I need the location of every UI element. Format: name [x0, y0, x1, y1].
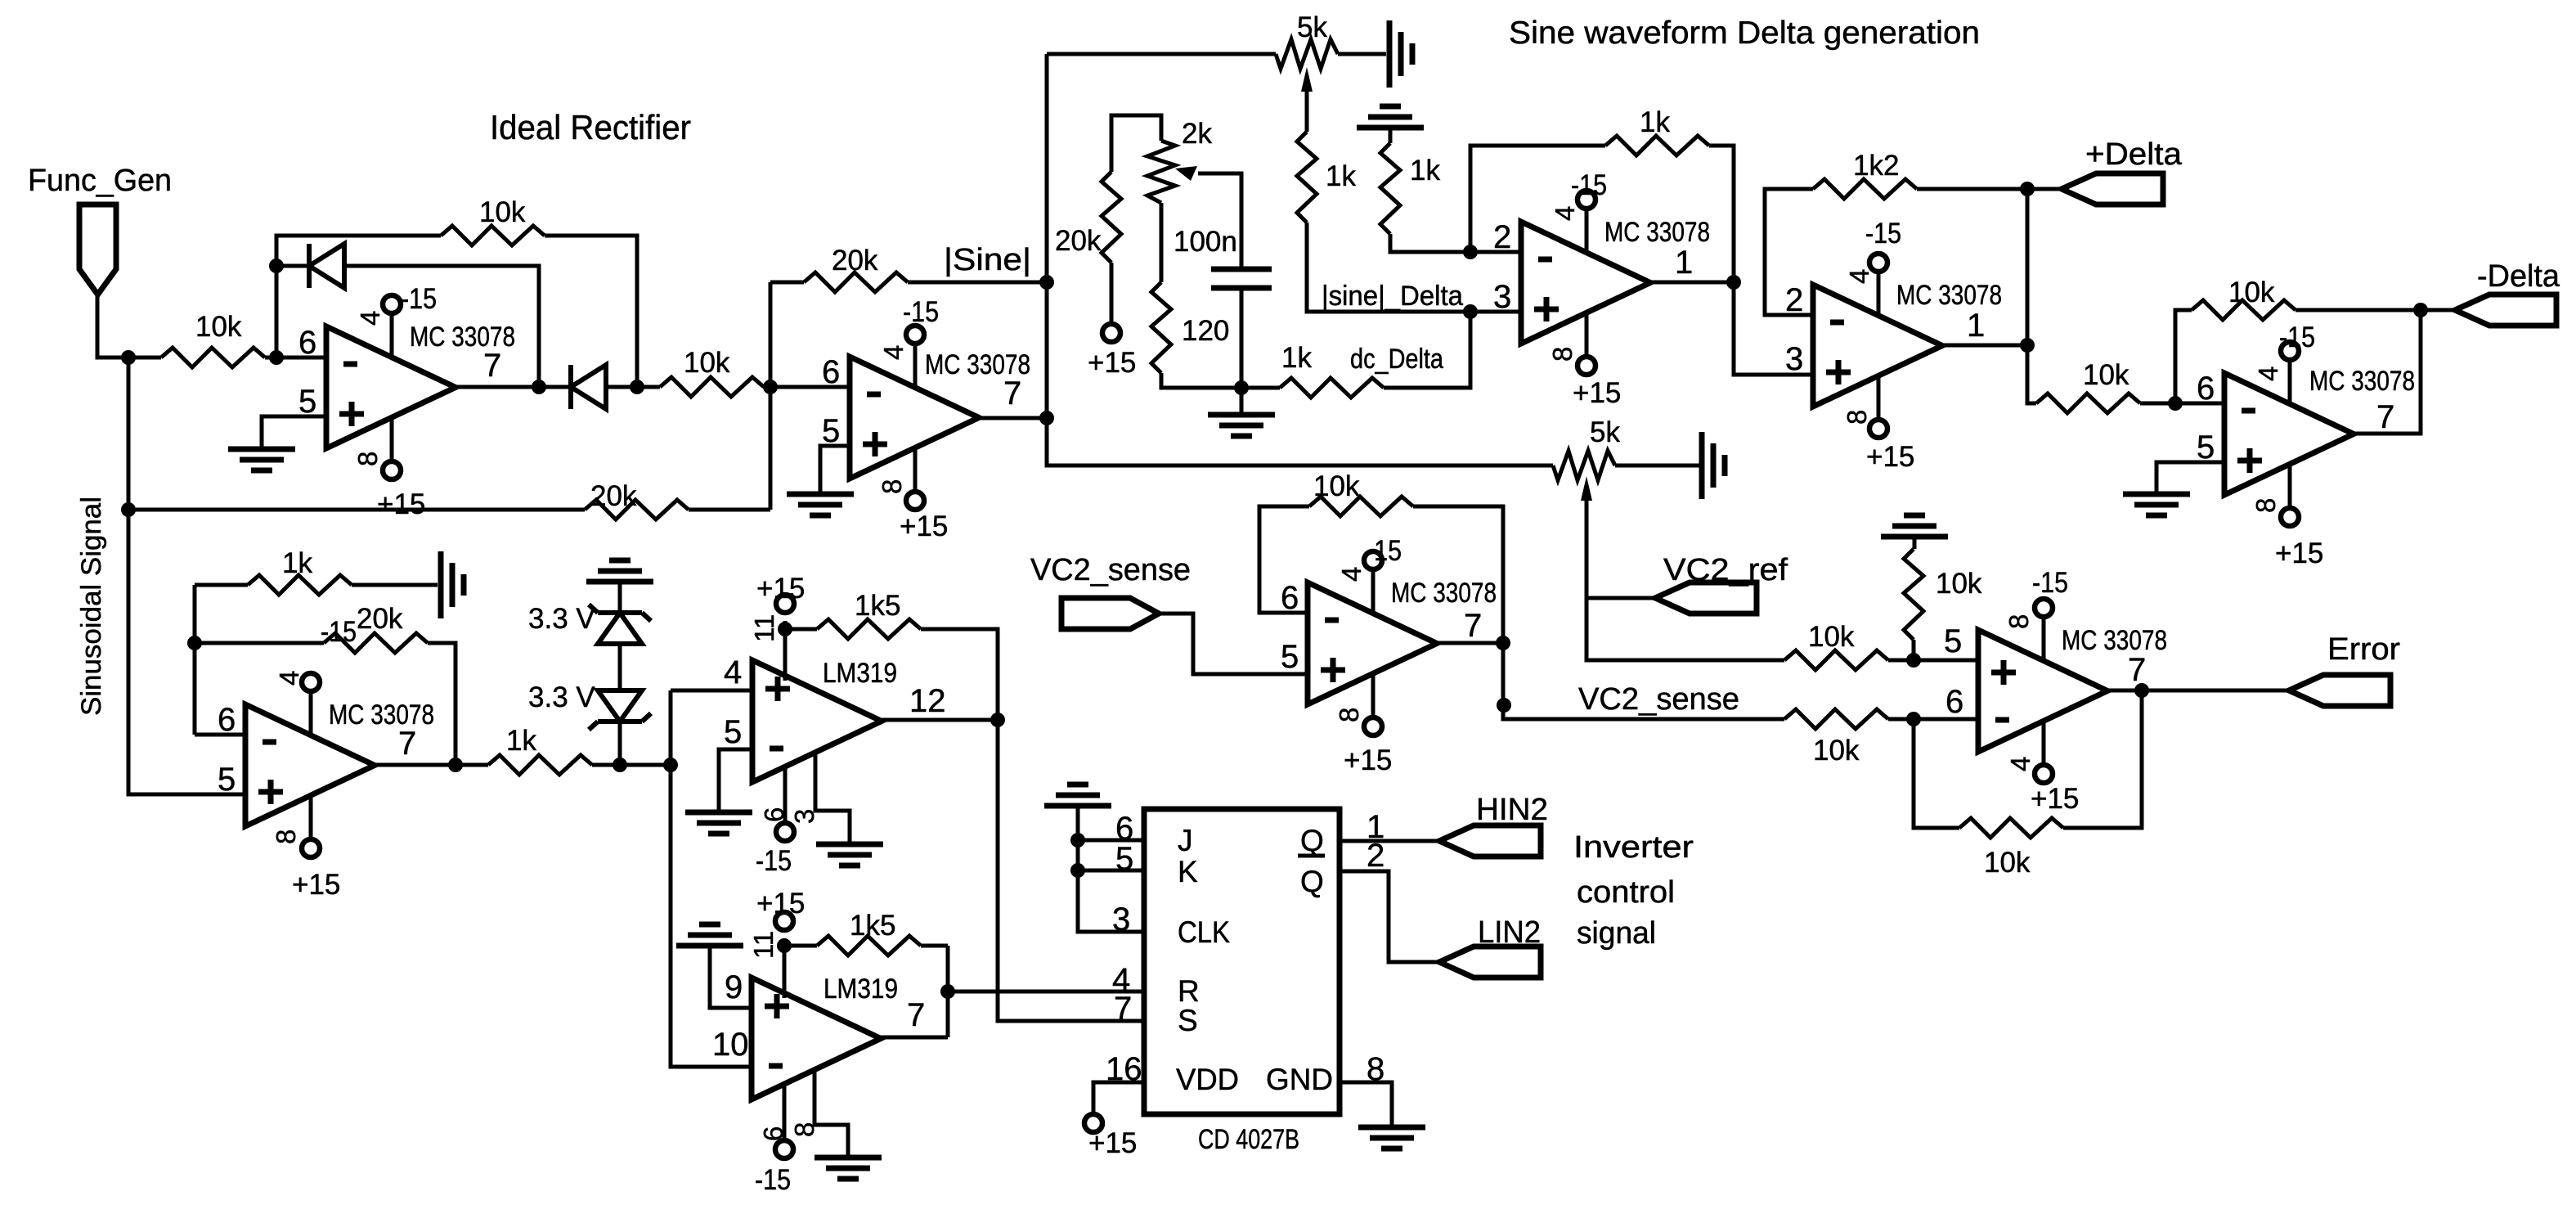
- svg-text:5: 5: [822, 413, 840, 449]
- svg-text:Inverter: Inverter: [1573, 830, 1694, 865]
- wire LM319#1 output: [882, 718, 998, 722]
- ground above J/K: [1044, 785, 1111, 806]
- svg-text:3.3 V: 3.3 V: [528, 681, 595, 713]
- svg-text:7: 7: [398, 726, 416, 762]
- resistor 10k to op5: [2036, 393, 2140, 413]
- wire op4 output: [1942, 344, 2027, 348]
- svg-text:6: 6: [758, 1126, 788, 1141]
- svg-text:+15: +15: [2275, 537, 2323, 569]
- svg-text:+15: +15: [900, 510, 948, 542]
- svg-text:VC2_sense: VC2_sense: [1030, 553, 1191, 587]
- wire 1k2 feedback left: [1765, 189, 1813, 315]
- resistor 10k feedback op5: [2192, 300, 2296, 320]
- wire 1k2 right to +Delta: [1917, 187, 2027, 191]
- ground 120 network: [1208, 415, 1275, 436]
- svg-text:Sinusoidal Signal: Sinusoidal Signal: [76, 497, 107, 716]
- svg-text:3: 3: [1112, 902, 1130, 937]
- svg-text:5: 5: [1281, 639, 1299, 675]
- wire 120 bottom: [1161, 373, 1241, 388]
- resistor 20k feedback op6: [324, 633, 428, 653]
- junction op6 output: [448, 758, 463, 772]
- comparator LM319: [752, 595, 882, 841]
- svg-text:7: 7: [1003, 375, 1021, 411]
- resistor 10k VC2_ref: [1784, 650, 1888, 670]
- wire J: [1078, 839, 1144, 843]
- svg-text:+15: +15: [1866, 441, 1914, 473]
- svg-text:8: 8: [1367, 1051, 1384, 1087]
- svg-text:20k: 20k: [832, 245, 878, 277]
- svg-text:1k: 1k: [1326, 160, 1356, 192]
- wire LM319#2 output: [881, 1036, 948, 1040]
- wire to D2: [539, 385, 571, 389]
- junction LM319#1 output: [990, 713, 1005, 727]
- wire to ground: [1338, 52, 1386, 56]
- op-amp: [245, 673, 375, 857]
- svg-text:4: 4: [878, 345, 909, 360]
- svg-text:5: 5: [298, 384, 316, 420]
- wire Sinusoidal Signal rail down to op6 +: [128, 357, 245, 794]
- wire op1 pin6 node up to 10k feedback: [276, 236, 441, 357]
- junction diode D1 branch: [269, 259, 284, 273]
- svg-text:6: 6: [218, 702, 236, 738]
- svg-text:8: 8: [789, 1122, 819, 1137]
- terminal +15: [1102, 324, 1120, 342]
- svg-text:VDD: VDD: [1176, 1063, 1239, 1096]
- wire to VC2_ref connector: [1586, 596, 1655, 600]
- svg-text:+15: +15: [756, 888, 805, 919]
- svg-text:2: 2: [1367, 838, 1384, 874]
- diode D1 feedback: [307, 244, 312, 288]
- junction op2 output: [1039, 411, 1054, 425]
- svg-text:+15: +15: [1573, 377, 1621, 409]
- svg-text:+15: +15: [756, 573, 805, 605]
- resistor 20k input op2: [585, 500, 689, 519]
- ground above 1k: [1357, 106, 1424, 128]
- wiper arrow 2k: [1175, 166, 1197, 181]
- wire Func_Gen to node: [97, 295, 128, 357]
- resistor 10k input: [161, 348, 265, 367]
- svg-text:8: 8: [2004, 614, 2034, 629]
- wire feedback down: [2063, 690, 2142, 828]
- svg-text:20k: 20k: [357, 603, 403, 635]
- junction op1 pin6 node: [269, 350, 284, 365]
- ground pin3: [816, 844, 883, 866]
- svg-text:4: 4: [2005, 757, 2035, 771]
- junction Error output: [2134, 683, 2149, 698]
- svg-text:6: 6: [1945, 684, 1963, 720]
- resistor 120: [1151, 282, 1171, 373]
- ground right of 5k ref: [1702, 432, 1725, 499]
- wire 20k feedback right: [908, 281, 1047, 285]
- svg-text:4: 4: [274, 671, 304, 686]
- wiper arrow 5k top: [1301, 67, 1313, 92]
- resistor 10k series: [660, 377, 764, 397]
- wire: [637, 385, 660, 389]
- wire 10k feedback right: [2296, 308, 2421, 312]
- wire to -Delta connector: [2421, 308, 2455, 312]
- wire +Delta node down to 10k: [2027, 189, 2036, 403]
- junction J: [1070, 833, 1085, 848]
- wire Q to HIN2: [1340, 839, 1439, 843]
- wire 10k feedback left: [1259, 506, 1309, 613]
- svg-text:control: control: [1577, 875, 1675, 910]
- svg-text:6: 6: [822, 354, 840, 390]
- svg-text:signal: signal: [1577, 916, 1656, 951]
- wire 20k to +15 terminal: [1110, 263, 1114, 324]
- svg-text:Q: Q: [1300, 824, 1324, 857]
- wire: [456, 763, 488, 767]
- resistor 1k5 pullup #2: [817, 936, 921, 955]
- svg-text:120: 120: [1182, 315, 1229, 347]
- svg-text:MC 33078: MC 33078: [1604, 217, 1710, 248]
- resistor 20k feedback op2: [804, 272, 908, 292]
- wire 1k to ground: [352, 583, 438, 587]
- wire: [785, 627, 817, 632]
- connector -Delta (output): [2455, 295, 2556, 326]
- svg-text:5: 5: [218, 762, 236, 798]
- svg-text:+Delta: +Delta: [2085, 137, 2183, 172]
- svg-text:MC 33078: MC 33078: [329, 699, 434, 731]
- resistor 1k5 pullup #1: [817, 619, 921, 639]
- wire to D1: [276, 264, 309, 268]
- wire op1 output: [456, 385, 539, 389]
- svg-text:11: 11: [748, 931, 779, 959]
- wire op6 pin6: [195, 733, 245, 737]
- wire to Error pin5: [1914, 659, 1978, 663]
- wire rail to 20k: [128, 508, 585, 512]
- svg-text:CLK: CLK: [1178, 915, 1230, 949]
- wiper arrow 5k ref: [1581, 476, 1592, 501]
- connector Error (output): [2289, 675, 2390, 706]
- ground right of 5k: [1389, 20, 1412, 88]
- wire Q-bar to LIN2: [1340, 871, 1439, 962]
- svg-text:1: 1: [1967, 308, 1985, 344]
- wire VC2_sense net down/right: [1503, 643, 1784, 719]
- wire rail down to LM319#2 -: [671, 690, 752, 1067]
- junction op2 pin6 node: [763, 380, 778, 394]
- wire: [1912, 640, 1916, 660]
- svg-text:Ideal Rectifier: Ideal Rectifier: [490, 108, 691, 146]
- svg-text:Error: Error: [2327, 632, 2400, 667]
- svg-text:5: 5: [724, 714, 742, 750]
- wire 20k feedback left: [770, 281, 804, 285]
- svg-text:7: 7: [1464, 608, 1482, 644]
- zener diode 3.3V lower: [598, 690, 642, 722]
- wire 10k feedback right down to output node: [545, 236, 637, 387]
- wire pin8 to ground: [815, 1068, 848, 1158]
- junction op4 output: [2020, 338, 2035, 353]
- svg-text:+15: +15: [2031, 783, 2079, 815]
- wire 1k feedback left: [195, 583, 248, 587]
- resistor 10k feedback Error: [1959, 818, 2063, 838]
- wire |Sine| vertical + mid rail to 5k pot: [1047, 54, 1553, 465]
- svg-text:8: 8: [1334, 708, 1364, 722]
- svg-text:20k: 20k: [1055, 225, 1102, 257]
- junction op3 pin2: [1463, 245, 1478, 259]
- svg-text:8: 8: [271, 830, 301, 844]
- svg-text:10k: 10k: [684, 347, 730, 379]
- junction op5 pin6: [2168, 396, 2183, 411]
- wire 20k feedback left: [195, 641, 324, 645]
- svg-text:12: 12: [909, 683, 946, 719]
- resistor 20k vertical: [1102, 172, 1121, 263]
- wire dc_Delta to op3 pin3: [1384, 312, 1470, 388]
- wire |sine|_Delta: [1307, 223, 1470, 312]
- IC CD4027B box: [1144, 809, 1340, 1114]
- connector +Delta (output): [2062, 173, 2163, 205]
- junction op3 pin3: [1463, 304, 1478, 319]
- wire between zeners: [618, 644, 622, 690]
- svg-text:3: 3: [1493, 279, 1511, 315]
- wire: [128, 356, 161, 360]
- wire: [1888, 717, 1914, 722]
- svg-text:9: 9: [725, 969, 743, 1005]
- op-amp: [850, 326, 979, 510]
- svg-text:3: 3: [1785, 341, 1803, 377]
- junction K: [1070, 863, 1085, 878]
- svg-text:3.3 V: 3.3 V: [528, 603, 595, 635]
- svg-text:1: 1: [1675, 245, 1693, 281]
- svg-text:6: 6: [2197, 371, 2215, 407]
- op-amp: [2224, 342, 2354, 526]
- svg-text:GND: GND: [1266, 1063, 1333, 1096]
- svg-text:2k: 2k: [1182, 118, 1212, 150]
- wire GND pin8: [1340, 1082, 1392, 1127]
- wire feedback vertical: [193, 585, 197, 735]
- junction comparator rail: [663, 758, 678, 772]
- svg-text:R: R: [1178, 974, 1200, 1008]
- wire: [2140, 402, 2175, 406]
- svg-text:4: 4: [355, 311, 385, 326]
- wire to +Delta connector: [2027, 187, 2062, 191]
- svg-text:+15: +15: [1088, 347, 1136, 379]
- wire op2 node vertical: [769, 282, 773, 510]
- svg-text:4: 4: [1336, 567, 1367, 582]
- wire 5k to ground: [1615, 464, 1699, 468]
- connector VC2_sense (input): [1061, 598, 1159, 629]
- svg-text:5: 5: [1115, 841, 1133, 877]
- wire 1k5 down to output: [946, 946, 950, 1037]
- resistor 1k2 feedback: [1813, 179, 1917, 199]
- svg-text:5: 5: [1944, 623, 1962, 659]
- svg-text:8: 8: [1547, 347, 1577, 362]
- svg-text:LIN2: LIN2: [1478, 915, 1541, 950]
- junction op3 output: [1726, 275, 1741, 290]
- wire ground to pin9: [710, 946, 752, 1008]
- wire op3 out to op4 +: [1734, 282, 1813, 375]
- wire zener top: [618, 582, 622, 613]
- ground op5 +: [2123, 494, 2190, 515]
- connector Func_Gen (input): [79, 205, 116, 295]
- diode D2 series: [568, 365, 573, 409]
- wire op5 + to ground: [2156, 462, 2224, 494]
- svg-text:CD 4027B: CD 4027B: [1198, 1124, 1299, 1155]
- svg-text:LM319: LM319: [824, 973, 898, 1005]
- svg-text:MC 33078: MC 33078: [2309, 366, 2415, 397]
- wire S input from LM319#1: [998, 720, 1144, 1021]
- resistor 1k series op6: [488, 755, 592, 775]
- wire zener bottom: [618, 717, 622, 765]
- wire: [1913, 537, 1917, 549]
- wire op2 output: [979, 416, 1047, 420]
- wire D2 to node: [606, 385, 637, 389]
- svg-text:10k: 10k: [1313, 470, 1360, 502]
- svg-text:VC2_ref: VC2_ref: [1663, 553, 1788, 587]
- junction zener node: [613, 758, 627, 772]
- svg-text:7: 7: [2128, 652, 2146, 688]
- wire 1k to op3 pin2: [1390, 234, 1470, 252]
- svg-text:8: 8: [2251, 498, 2281, 513]
- svg-text:10k: 10k: [1813, 735, 1860, 767]
- svg-text:20k: 20k: [590, 480, 637, 512]
- wire op3 output: [1650, 281, 1734, 285]
- svg-text:4: 4: [724, 654, 742, 690]
- wire: [921, 944, 948, 948]
- wire: [784, 944, 817, 948]
- ground above 10k: [1881, 515, 1948, 537]
- svg-text:MC 33078: MC 33078: [410, 321, 515, 353]
- svg-text:8: 8: [1842, 410, 1872, 425]
- wire 10k feedback right: [1413, 506, 1503, 643]
- svg-text:1k5: 1k5: [850, 910, 895, 942]
- svg-text:100n: 100n: [1174, 226, 1237, 258]
- svg-text:4: 4: [1550, 206, 1580, 221]
- wire D1 anode to op1 output: [344, 266, 539, 387]
- svg-text:Q: Q: [1300, 865, 1324, 898]
- svg-text:10: 10: [712, 1027, 749, 1063]
- wire wiper: [1305, 92, 1309, 132]
- junction |Sine| net: [1039, 275, 1054, 290]
- wire 100n bottom: [1240, 288, 1244, 388]
- svg-text:+15: +15: [1088, 1127, 1137, 1159]
- terminal +15 VDD: [1084, 1114, 1102, 1132]
- wire 20k top U to 2k: [1111, 115, 1161, 172]
- resistor 10k pulldown: [1904, 549, 1923, 640]
- wire ground to CLK: [1078, 806, 1144, 932]
- wire: [1389, 128, 1393, 143]
- svg-text:2: 2: [1493, 219, 1511, 255]
- svg-text:16: 16: [1106, 1051, 1142, 1087]
- svg-text:10k: 10k: [1936, 568, 1982, 600]
- svg-text:10k: 10k: [1808, 621, 1855, 653]
- svg-text:7: 7: [1114, 991, 1132, 1027]
- svg-text:7: 7: [483, 348, 501, 384]
- svg-text:4: 4: [1844, 269, 1874, 284]
- wire VDD: [1093, 1082, 1144, 1114]
- ground CD4027: [1358, 1127, 1425, 1149]
- svg-text:8: 8: [352, 452, 383, 466]
- svg-text:+15: +15: [1344, 744, 1392, 776]
- wire to op1 pin6: [265, 356, 326, 360]
- wire R input: [948, 990, 1144, 994]
- svg-text:1k: 1k: [1410, 155, 1440, 187]
- ground LM319#2 +: [676, 924, 743, 946]
- junction LM319#2 output to R: [940, 984, 955, 999]
- ground op1 +: [228, 449, 295, 470]
- svg-text:8: 8: [877, 479, 907, 494]
- svg-text:1k: 1k: [1281, 342, 1312, 374]
- resistor 10k feedback: [441, 226, 545, 245]
- wire: [764, 385, 770, 389]
- svg-text:-15: -15: [1865, 218, 1901, 250]
- wire: [1888, 659, 1914, 663]
- svg-text:7: 7: [907, 997, 925, 1033]
- wire to LM319#1 +: [671, 689, 752, 693]
- svg-text:-15: -15: [1571, 169, 1607, 201]
- svg-text:-15: -15: [2032, 567, 2068, 599]
- svg-text:1k5: 1k5: [855, 590, 900, 622]
- resistor 10k VC2_sense: [1784, 709, 1888, 729]
- wire 2k wiper to 100n: [1198, 173, 1241, 269]
- junction pin11/1k5: [777, 938, 792, 953]
- op-amp: [1978, 599, 2107, 783]
- op-amp: [1308, 551, 1437, 735]
- resistor 1k wiper: [1297, 132, 1317, 223]
- wire to Error pin6: [1914, 717, 1978, 722]
- svg-text:Sine waveform Delta generation: Sine waveform Delta generation: [1509, 16, 1980, 51]
- svg-text:2: 2: [1785, 282, 1803, 318]
- svg-text:Func_Gen: Func_Gen: [28, 164, 172, 198]
- svg-text:7: 7: [2376, 399, 2394, 435]
- junction VC2 out: [1496, 636, 1510, 650]
- wire 2k to 120: [1160, 203, 1164, 282]
- svg-text:VC2_sense: VC2_sense: [1578, 682, 1739, 717]
- potentiometer 5k top: [1276, 39, 1338, 69]
- op-amp: [1521, 191, 1650, 375]
- wire to dc_Delta 1k: [1241, 386, 1280, 390]
- junction VC2_sense label: [1497, 698, 1511, 713]
- ground pin8: [815, 1158, 882, 1179]
- connector LIN2 (output): [1439, 946, 1541, 978]
- wire 1k feedback right: [1709, 146, 1734, 282]
- wire wiper down to 10k: [1586, 501, 1784, 660]
- svg-text:LM319: LM319: [823, 658, 897, 689]
- wire top rail: [1047, 52, 1276, 56]
- svg-text:|Sine|: |Sine|: [944, 243, 1031, 277]
- op-amp: [326, 295, 456, 479]
- wire pin3 to ground: [815, 751, 850, 844]
- svg-text:1k2: 1k2: [1853, 150, 1899, 182]
- svg-text:+15: +15: [292, 869, 340, 901]
- svg-text:5k: 5k: [1590, 416, 1620, 448]
- svg-text:dc_Delta: dc_Delta: [1350, 344, 1443, 375]
- wire op1 + to ground: [262, 416, 326, 449]
- wire 20k to op2 node: [689, 508, 770, 512]
- svg-text:3: 3: [789, 809, 819, 824]
- svg-text:10k: 10k: [2083, 359, 2129, 391]
- resistor 1k feedback op3: [1605, 136, 1709, 155]
- wire: [620, 763, 671, 767]
- svg-text:-15: -15: [903, 296, 939, 328]
- junction +Delta: [2020, 182, 2035, 196]
- svg-text:10k: 10k: [479, 196, 526, 228]
- svg-text:4: 4: [2253, 366, 2283, 381]
- svg-text:1k: 1k: [506, 725, 536, 757]
- wire to Error connector: [2142, 689, 2289, 693]
- wire VC2_sense to op pin5: [1159, 614, 1308, 674]
- ground op2 +: [787, 494, 854, 515]
- svg-text:HIN2: HIN2: [1476, 793, 1548, 827]
- wire pin5 to ground: [719, 749, 752, 812]
- comparator LM319: [752, 912, 881, 1158]
- wire op2 + to ground: [820, 446, 850, 494]
- resistor 1k feedback op6: [248, 575, 352, 595]
- svg-text:MC 33078: MC 33078: [2062, 625, 2167, 656]
- svg-text:5k: 5k: [1297, 11, 1327, 43]
- connector HIN2 (output): [1439, 825, 1541, 857]
- svg-text:-15: -15: [756, 845, 792, 877]
- svg-text:1k: 1k: [1640, 106, 1670, 138]
